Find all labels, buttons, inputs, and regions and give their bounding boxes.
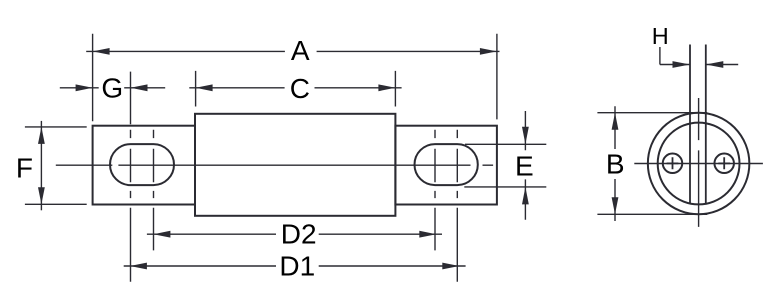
- svg-text:A: A: [291, 35, 310, 66]
- svg-text:D2: D2: [281, 219, 317, 250]
- svg-text:G: G: [101, 73, 123, 104]
- svg-text:H: H: [652, 23, 669, 49]
- svg-text:F: F: [16, 152, 33, 183]
- svg-text:D1: D1: [279, 251, 315, 282]
- svg-text:C: C: [290, 73, 310, 104]
- svg-text:B: B: [606, 148, 625, 179]
- svg-text:E: E: [515, 151, 534, 182]
